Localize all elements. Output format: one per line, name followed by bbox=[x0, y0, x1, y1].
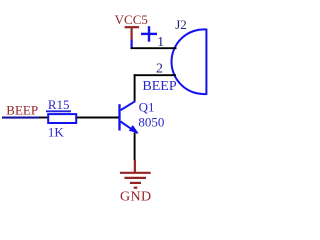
svg-text:R15: R15 bbox=[48, 97, 70, 112]
svg-text:1K: 1K bbox=[48, 124, 65, 139]
svg-text:BEEP: BEEP bbox=[6, 103, 38, 118]
svg-text:J2: J2 bbox=[175, 17, 187, 32]
svg-text:2: 2 bbox=[156, 61, 163, 76]
svg-text:8050: 8050 bbox=[138, 114, 164, 129]
svg-text:GND: GND bbox=[120, 190, 152, 205]
svg-text:1: 1 bbox=[157, 35, 164, 50]
svg-text:VCC5: VCC5 bbox=[115, 12, 148, 27]
svg-text:Q1: Q1 bbox=[139, 99, 155, 114]
svg-text:BEEP: BEEP bbox=[142, 79, 176, 94]
